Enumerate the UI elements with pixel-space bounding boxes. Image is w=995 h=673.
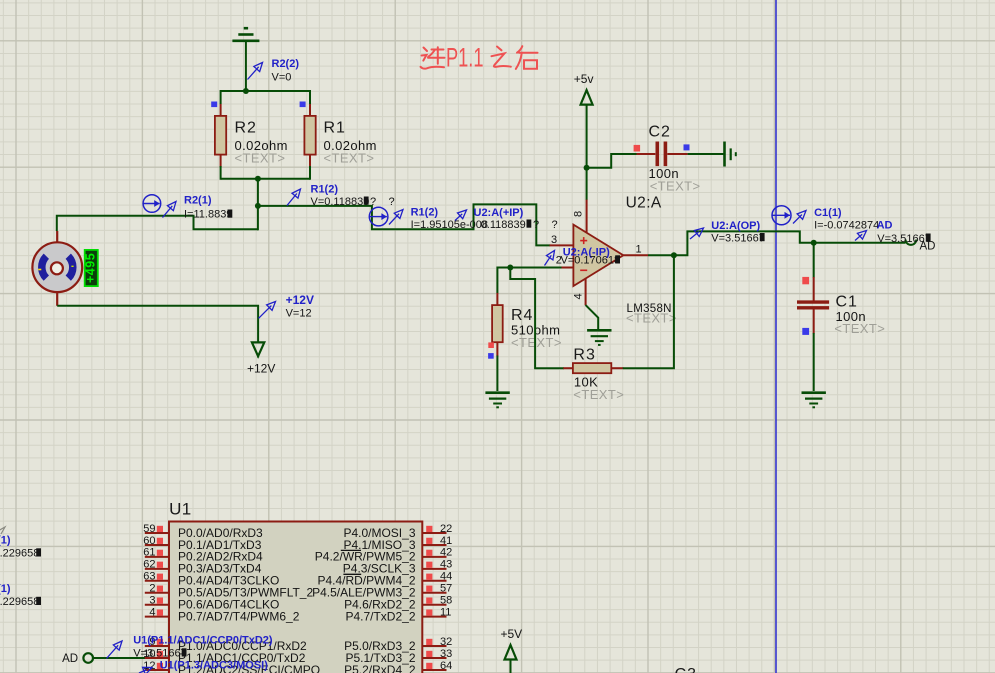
selection marker R4 bottom blue — [488, 353, 494, 359]
pin 3 stub — [550, 244, 574, 246]
partial probe label (left edge, upper) — [0, 527, 5, 534]
svg-text:43: 43 — [440, 559, 452, 571]
svg-text:3: 3 — [551, 234, 557, 246]
svg-text:<TEXT>: <TEXT> — [235, 151, 286, 166]
U1 pin 9 (P1.0/ADC0/CCP1/RxD2) — [145, 645, 169, 647]
svg-text:I=1.95105e-008: I=1.95105e-008 — [411, 219, 488, 231]
selection marker C2 right (blue) — [684, 144, 690, 150]
svg-text:0.229658: 0.229658 — [0, 596, 39, 608]
node +5v junction — [584, 165, 590, 171]
wire C2 to ground — [688, 153, 725, 155]
pin 1 output stub — [623, 254, 648, 256]
selection marker C1 bottom blue — [802, 328, 809, 335]
svg-text:<TEXT>: <TEXT> — [573, 387, 624, 402]
svg-text:U2:A: U2:A — [626, 195, 662, 212]
svg-text:22: 22 — [440, 523, 452, 535]
wire op-amp output — [648, 254, 674, 256]
svg-text:C1: C1 — [836, 293, 858, 310]
svg-text:33: 33 — [440, 648, 452, 660]
node junction bottom rail — [255, 176, 261, 182]
wire top rail R2-R1 — [221, 90, 310, 92]
selection marker C1 top red — [802, 277, 809, 284]
svg-text:57: 57 — [440, 583, 452, 595]
svg-text:V=0: V=0 — [272, 72, 292, 84]
U1 pin 41 (P4.1/MISO_3) — [422, 544, 446, 546]
terminal AD (right) — [906, 240, 917, 245]
svg-text:+495: +495 — [84, 253, 98, 283]
wire -input node to R3 — [510, 268, 564, 369]
ground (below op-amp) — [587, 329, 611, 332]
svg-text:I=11.8839: I=11.8839 — [184, 209, 232, 221]
capacitor C2 — [637, 153, 656, 155]
svg-text:<TEXT>: <TEXT> — [650, 179, 701, 194]
svg-text:P0.7/AD7/T4/PWM6_2: P0.7/AD7/T4/PWM6_2 — [178, 609, 300, 623]
op-amp - input mark — [580, 269, 587, 271]
U1 pin 59 (P0.0/AD0/RxD3) — [145, 532, 169, 534]
svg-text:<TEXT>: <TEXT> — [834, 321, 885, 336]
capacitor C1 — [813, 277, 815, 301]
wire R2 bottom lead — [220, 166, 222, 180]
wire bottom rail R2-R1 — [221, 178, 310, 180]
voltage probe U2:A(OP) — [690, 232, 699, 239]
selection marker C2 left (red) — [634, 145, 641, 152]
pin 4 stub — [585, 278, 587, 305]
wire AD terminal to U1 pin — [93, 657, 146, 659]
ground (right of C2) — [723, 142, 726, 167]
overline WR (P4.2) — [341, 549, 361, 551]
motor value label +495 — [85, 250, 98, 286]
title annotation 连P1.1之后 — [421, 47, 445, 68]
svg-text:V=12: V=12 — [286, 308, 312, 320]
wire bottom rail to main node — [257, 179, 259, 231]
ground (below C1) — [802, 391, 826, 394]
svg-text:1(1): 1(1) — [0, 535, 11, 547]
wire R3 to output node — [623, 255, 674, 368]
svg-text:?: ? — [552, 219, 558, 231]
selection marker R4 bottom red — [488, 342, 494, 348]
wire C1 to ground — [813, 333, 815, 391]
ground (top, above R1/R2) — [244, 27, 248, 30]
U1 pin 42 (P4.2/WR/PWM5_2) — [422, 556, 446, 558]
svg-text:R2: R2 — [235, 120, 257, 137]
svg-text:?: ? — [389, 196, 395, 208]
U1 pin 44 (P4.4/RD/PWM4_2) — [422, 580, 446, 582]
svg-text:?: ? — [370, 196, 376, 208]
U1 pin 22 (P4.0/MOSI_3) — [422, 532, 446, 534]
U1 pin 32 (P5.0/RxD3_2) — [422, 645, 446, 647]
U1 pin 62 (P0.3/AD3/TxD4) — [145, 568, 169, 570]
U1 pin 63 (P0.4/AD4/T3CLKO) — [145, 580, 169, 582]
svg-text:?: ? — [533, 219, 539, 231]
overline RD (P4.4) — [343, 573, 361, 575]
U1 pin 3 (P0.6/AD6/T4CLKO) — [145, 604, 169, 606]
U1 pin 33 (P5.1/TxD3_2) — [422, 657, 446, 659]
svg-text:<TEXT>: <TEXT> — [626, 311, 677, 326]
svg-text:3: 3 — [149, 595, 155, 607]
svg-text:V=0.170618: V=0.170618 — [561, 254, 621, 266]
U1 pin 60 (P0.1/AD1/TxD3) — [145, 544, 169, 546]
U1 pin 10 (P1.1/ADC1/CCP0/TxD2) — [145, 657, 169, 659]
svg-text:<TEXT>: <TEXT> — [511, 335, 562, 350]
svg-text:R2(1): R2(1) — [184, 195, 212, 207]
svg-text:V=3.51667: V=3.51667 — [711, 232, 765, 244]
svg-text:R1(2): R1(2) — [311, 184, 339, 196]
wire to C1 — [813, 243, 815, 278]
svg-text:U1: U1 — [169, 500, 192, 519]
svg-text:U2:A(+IP): U2:A(+IP) — [474, 207, 524, 219]
selection marker R2 top — [211, 102, 217, 108]
voltage probe R2(2) — [248, 67, 259, 80]
current probe R2(1) — [143, 195, 161, 213]
wire -input to R4 — [497, 268, 510, 294]
svg-text:61: 61 — [143, 547, 155, 559]
svg-text:60: 60 — [143, 535, 155, 547]
svg-text:+5V: +5V — [501, 627, 523, 641]
wire motor to +12V — [57, 306, 258, 343]
ground (below R4) — [485, 391, 509, 394]
resistor R1 — [309, 104, 311, 116]
U1 pin 64 (P5.2/RxD4_2) — [422, 669, 446, 671]
op-amp U2:A body — [573, 225, 623, 286]
svg-text:U1(P1.3/ADC3/MOSI): U1(P1.3/ADC3/MOSI) — [160, 660, 269, 672]
node main junction — [255, 203, 261, 209]
svg-text:V=3.51667: V=3.51667 — [133, 648, 187, 660]
svg-text:0.229658: 0.229658 — [0, 548, 39, 560]
svg-text:V=0.118839: V=0.118839 — [311, 196, 370, 208]
U1 pin 11 (P4.7/TxD2_2) — [422, 616, 446, 618]
current probe C1(1) — [772, 206, 791, 225]
resistor R2 — [220, 104, 222, 116]
U1 pin 2 (P0.5/AD5/T3/PWMFLT_2) — [145, 592, 169, 594]
svg-text:U1(P1.1/ADC1/CCP0/TxD2): U1(P1.1/ADC1/CCP0/TxD2) — [133, 634, 273, 646]
wire main node left toward motor — [57, 216, 258, 231]
voltage probe U1(P1.1) — [107, 645, 119, 658]
U1 pin 12 (P1.2/ADC2/SS/ECI/CMPO) — [145, 669, 169, 671]
svg-text:R2(2): R2(2) — [272, 58, 300, 70]
svg-text:44: 44 — [440, 571, 452, 583]
sheet divider blue line — [775, 0, 777, 673]
wire output to AD terminal — [674, 231, 906, 255]
svg-text:4: 4 — [572, 293, 584, 299]
svg-text:+12V: +12V — [247, 362, 275, 376]
voltage probe +12V — [259, 306, 272, 319]
svg-text:42: 42 — [440, 547, 452, 559]
resistor R4 — [496, 293, 498, 306]
svg-text:1: 1 — [636, 244, 642, 256]
svg-text:32: 32 — [440, 636, 452, 648]
U1 pin 4 (P0.7/AD7/T4/PWM6_2) — [145, 616, 169, 618]
op-amp + input mark — [580, 240, 587, 242]
wire R4 to ground — [496, 356, 498, 392]
svg-text:P5.2/RxD4_2: P5.2/RxD4_2 — [344, 663, 416, 673]
U1 pin 43 (P4.3/SCLK_3) — [422, 568, 446, 570]
svg-text:63: 63 — [143, 571, 155, 583]
svg-text:62: 62 — [143, 559, 155, 571]
wire ground to top junction — [245, 41, 247, 91]
svg-text:+5v: +5v — [574, 72, 594, 86]
svg-text:64: 64 — [440, 660, 452, 672]
svg-text:58: 58 — [440, 595, 452, 607]
svg-text:C1(1): C1(1) — [814, 207, 842, 219]
U1 pin 61 (P0.2/AD2/RxD4) — [145, 556, 169, 558]
svg-text:1(1): 1(1) — [0, 583, 11, 595]
svg-text:AD: AD — [877, 219, 893, 231]
svg-text:<TEXT>: <TEXT> — [324, 151, 375, 166]
wire R1 bottom lead — [309, 166, 311, 180]
U1 pin 57 (P4.5/ALE/PWM3_2) — [422, 592, 446, 594]
pin 8 stub — [586, 200, 588, 233]
wire main node right toward op-amp — [258, 204, 550, 245]
resistor R3 — [563, 367, 573, 369]
wire +5v node to C2 — [587, 154, 637, 168]
wire pin4 to ground — [586, 305, 599, 331]
wire R2 top lead — [220, 90, 222, 104]
current probe R1(2) — [369, 207, 388, 226]
svg-text:11: 11 — [440, 606, 451, 618]
node junction C1 — [811, 240, 817, 246]
svg-text:AD: AD — [62, 653, 78, 665]
voltage probe R1(2) — [287, 193, 297, 205]
node output junction — [671, 252, 677, 258]
svg-text:R1: R1 — [324, 120, 346, 137]
probe arrow (bottom edge) — [139, 670, 147, 673]
node -input junction — [507, 265, 513, 271]
node junction top — [243, 88, 249, 94]
svg-text:P1.1: P1.1 — [446, 43, 484, 73]
probe arrow at +IP wire — [455, 214, 462, 221]
svg-text:C3: C3 — [675, 666, 697, 673]
wire R1 top lead — [309, 90, 311, 104]
svg-text:59: 59 — [143, 523, 155, 535]
svg-text:0.118839: 0.118839 — [481, 219, 526, 231]
wire +5v to op-amp pin8 — [586, 168, 588, 200]
svg-text:P4.7/TxD2_2: P4.7/TxD2_2 — [345, 609, 415, 623]
selection marker R1 top — [300, 102, 306, 108]
svg-text:41: 41 — [440, 535, 452, 547]
svg-text:R1(2): R1(2) — [411, 207, 439, 219]
svg-text:R3: R3 — [573, 346, 595, 363]
svg-text:4: 4 — [149, 606, 155, 618]
power symbol +12V (down arrow) — [252, 342, 264, 356]
wire -input net — [510, 267, 561, 269]
svg-text:C2: C2 — [649, 124, 671, 141]
U1 pin 58 (P4.6/RxD2_2) — [422, 604, 446, 606]
svg-text:I=-0.0742874: I=-0.0742874 — [814, 219, 879, 231]
svg-text:U2:A(OP): U2:A(OP) — [711, 220, 760, 232]
motor (DC motor with RPM label) — [32, 231, 82, 306]
pin 2 stub — [562, 267, 574, 269]
svg-text:V=3.51667: V=3.51667 — [877, 233, 931, 245]
svg-text:2: 2 — [149, 583, 155, 595]
svg-text:+12V: +12V — [286, 293, 314, 307]
probe arrow U2:A(-IP) — [545, 255, 552, 265]
voltage probe AD — [855, 234, 862, 240]
svg-text:8: 8 — [573, 211, 585, 217]
